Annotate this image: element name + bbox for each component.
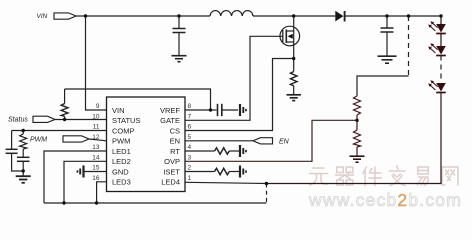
svg-text:COMP: COMP: [112, 126, 135, 135]
wire VREF pullup loop: [107, 109, 211, 111]
pin numbers left: [92, 103, 100, 182]
svg-text:6: 6: [188, 124, 192, 131]
svg-text:5: 5: [188, 134, 192, 141]
wire bottom rail: [44, 202, 267, 204]
capacitor output C2: [381, 16, 394, 56]
LED D4: [428, 80, 446, 92]
ground mini ISET: [240, 166, 246, 178]
resistor comp Rc: [20, 131, 27, 158]
wire OVP tap dashed: [408, 16, 410, 76]
pin labels right: [160, 106, 180, 187]
wire ISET pin2: [185, 171, 211, 173]
svg-text:LED3: LED3: [112, 178, 131, 187]
wire LED2 pin14: [64, 161, 107, 203]
svg-text:15: 15: [92, 165, 100, 172]
wire: [440, 34, 442, 47]
pin labels left: [112, 106, 140, 187]
wire dashed riser bottom rail: [266, 184, 268, 204]
ground mini RT: [240, 145, 246, 157]
svg-text:GATE: GATE: [160, 116, 180, 125]
svg-text:PWM: PWM: [30, 137, 47, 144]
wire tap to divider: [357, 76, 409, 96]
wire source to CS pin6: [185, 59, 294, 131]
svg-text:3: 3: [188, 154, 192, 161]
svg-text:STATUS: STATUS: [112, 116, 140, 125]
svg-text:12: 12: [92, 134, 100, 141]
svg-text:7: 7: [188, 113, 192, 120]
svg-text:16: 16: [92, 175, 100, 182]
op-amp U1 IC body: [107, 97, 186, 192]
svg-text:11: 11: [93, 124, 100, 131]
wire PWM pin12: [89, 139, 107, 141]
wire RT pin4: [185, 150, 211, 152]
svg-text:8: 8: [188, 103, 192, 110]
connector EN: [253, 138, 273, 144]
LED D3: [428, 43, 446, 55]
svg-text:GND: GND: [112, 167, 129, 176]
svg-text:Status: Status: [8, 117, 28, 124]
svg-text:9: 9: [96, 103, 100, 110]
svg-text:OVP: OVP: [164, 157, 180, 166]
svg-text:LED4: LED4: [161, 178, 180, 187]
ground mini VREF: [240, 104, 246, 116]
wire dashed string: [440, 56, 442, 83]
wire string bottom to LED4 pin1: [267, 93, 442, 184]
node dots: [22, 14, 443, 204]
svg-text:13: 13: [92, 144, 100, 151]
connector VIN: [54, 13, 76, 19]
wire top rail: [76, 15, 210, 17]
resistor pullup R1: [61, 89, 68, 120]
svg-text:4: 4: [188, 144, 192, 151]
connector Status: [33, 116, 55, 122]
ground sense: [287, 95, 301, 101]
ground divider: [350, 156, 365, 162]
ground input: [172, 56, 187, 62]
wire STATUS pin10: [55, 119, 107, 121]
LED D2: [428, 21, 446, 33]
diode D1: [335, 11, 344, 22]
svg-text:www.cecb2b.com: www.cecb2b.com: [308, 190, 462, 210]
svg-text:10: 10: [92, 113, 100, 120]
ground comp: [16, 176, 31, 183]
resistor divider upper: [354, 96, 361, 120]
svg-text:2: 2: [188, 165, 192, 172]
watermark 元器件交易网: [310, 166, 459, 186]
resistor RT: [211, 150, 215, 152]
wire inductor to diode: [253, 15, 335, 17]
transistor Q1 MOSFET: [280, 16, 300, 59]
node VIN vertical to pin9: [86, 16, 107, 110]
wire COMP pin11: [12, 130, 107, 132]
svg-text:14: 14: [92, 154, 100, 161]
ground output: [378, 56, 397, 63]
svg-text:1: 1: [188, 175, 192, 182]
wire OVP pin3: [185, 120, 357, 161]
svg-text:RT: RT: [170, 147, 180, 156]
wire diode to corner: [345, 15, 441, 17]
svg-text:PWM: PWM: [112, 137, 130, 146]
resistor ISET: [211, 171, 215, 173]
svg-text:EN: EN: [279, 139, 290, 146]
capacitor VREF C3: [211, 104, 239, 116]
inductor L1: [210, 11, 253, 16]
capacitor comp Cc left branch: [6, 131, 24, 172]
wire LED3 pin16: [97, 182, 107, 203]
svg-text:VIN: VIN: [37, 13, 48, 20]
wire EN pin5: [185, 140, 253, 142]
svg-text:VIN: VIN: [112, 106, 125, 115]
capacitor comp Cz: [17, 157, 30, 176]
wire LED4 row to IC: [185, 182, 267, 183]
wire string top: [440, 16, 442, 24]
svg-text:CS: CS: [170, 126, 180, 135]
svg-text:EN: EN: [170, 137, 180, 146]
svg-text:ISET: ISET: [163, 167, 180, 176]
connector PWM: [63, 136, 89, 142]
resistor divider lower: [354, 120, 361, 155]
wire gate to pin7: [185, 36, 283, 120]
wire LED1 pin13: [44, 151, 107, 203]
svg-text:LED1: LED1: [112, 147, 131, 156]
resistor sense below Q1: [290, 59, 297, 95]
ground mini GND pin15: [78, 166, 107, 178]
svg-text:VREF: VREF: [160, 106, 180, 115]
pin numbers right: [188, 103, 192, 182]
capacitor input C1: [173, 16, 186, 55]
svg-text:LED2: LED2: [112, 157, 131, 166]
